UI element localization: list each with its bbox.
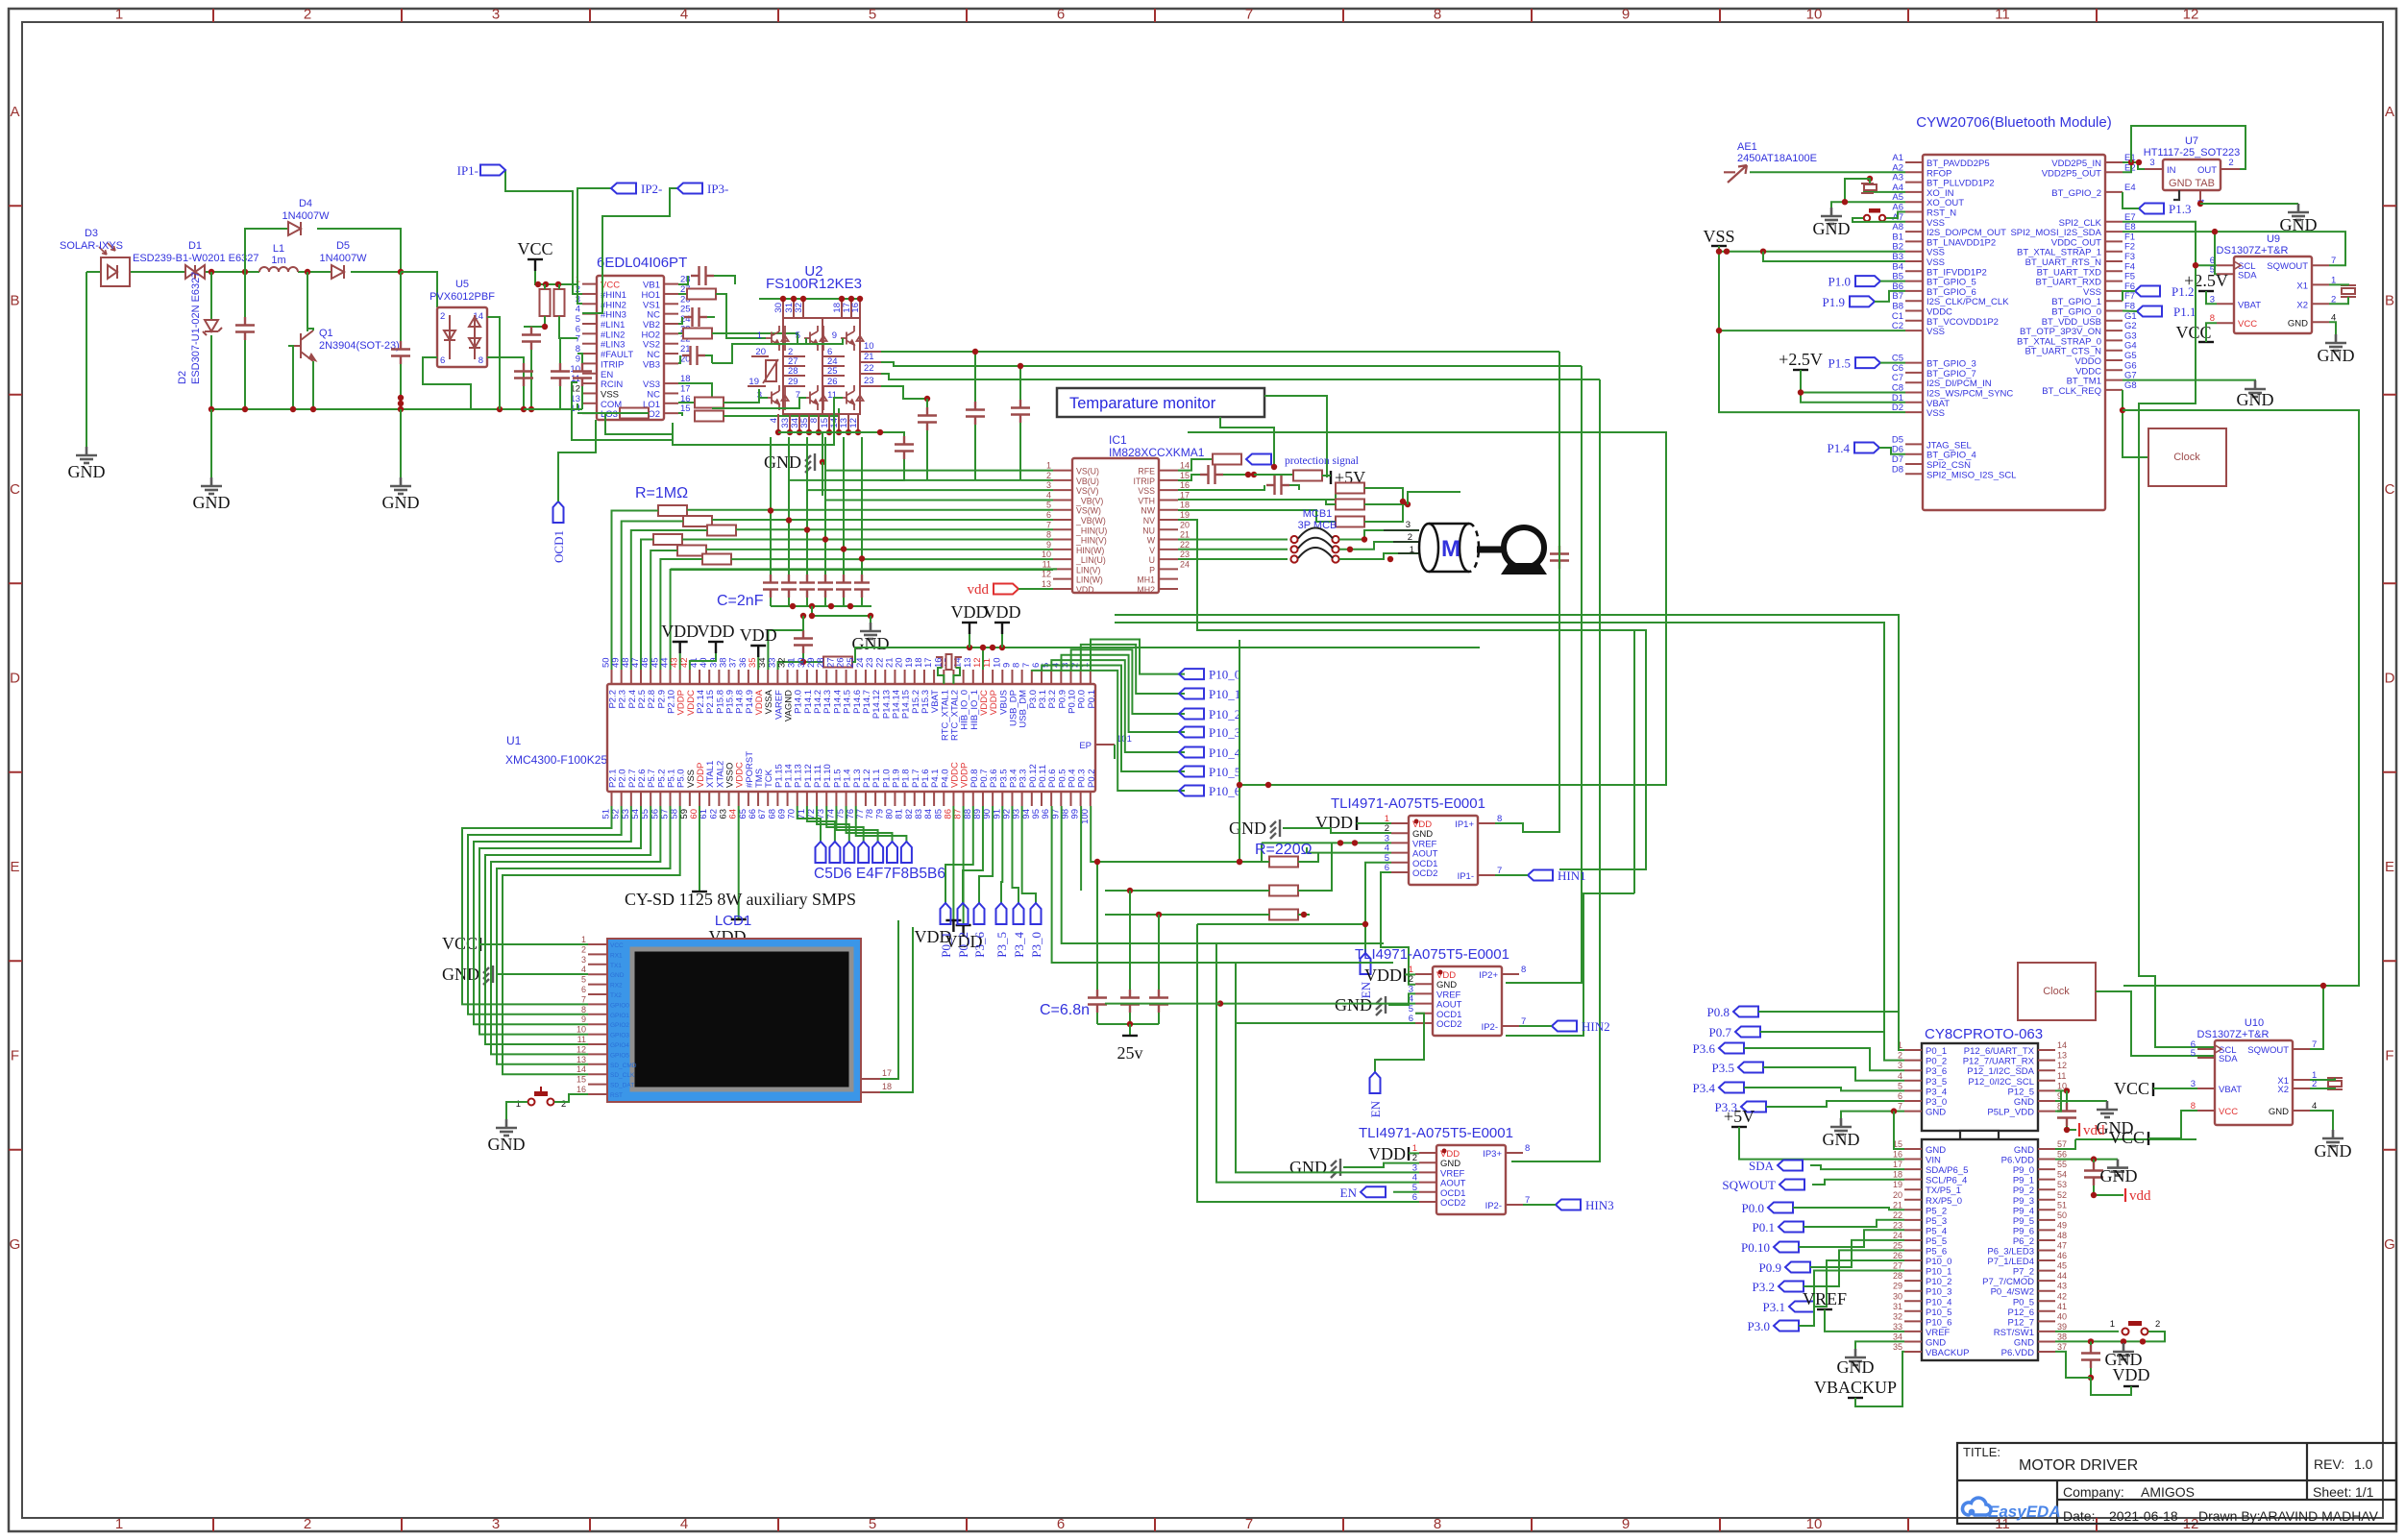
svg-text:NC: NC xyxy=(647,350,660,360)
pin 35 CY8C VBACKUP xyxy=(1904,1351,1922,1353)
svg-text:1N4007W: 1N4007W xyxy=(320,253,368,264)
resistor R=1M #4 xyxy=(653,534,682,545)
svg-text:52: 52 xyxy=(2057,1190,2067,1200)
svg-text:11: 11 xyxy=(827,390,837,401)
svg-text:P10_3: P10_3 xyxy=(1926,1287,1951,1298)
net flag P10_1 xyxy=(1179,689,1204,699)
svg-text:4: 4 xyxy=(576,305,580,315)
svg-text:TITLE:: TITLE: xyxy=(1963,1445,2000,1459)
pin 16 CY8C VIN xyxy=(1904,1159,1922,1161)
ground (LCD) xyxy=(483,966,493,985)
svg-text:P7_1/LED4: P7_1/LED4 xyxy=(1987,1257,2034,1267)
ground (P6VDD) xyxy=(2107,1160,2128,1176)
pin E7 CYW SPI2_CLK xyxy=(2105,221,2123,223)
pin 31 CY8C P10_5 xyxy=(1904,1310,1922,1312)
wire loop IP2- return xyxy=(1506,893,1634,1036)
ground (button) xyxy=(496,1119,517,1136)
svg-text:P10_4: P10_4 xyxy=(1209,746,1241,760)
svg-text:G: G xyxy=(2384,1236,2395,1253)
svg-text:NV: NV xyxy=(1143,516,1155,526)
svg-text:E: E xyxy=(2385,859,2394,875)
wire sensor3 AOUT xyxy=(1216,943,1419,1183)
svg-text:4: 4 xyxy=(1898,1071,1902,1081)
svg-text:vdd: vdd xyxy=(2129,1188,2151,1204)
capacitor ITRIP filter xyxy=(1178,475,1200,480)
wire HIN loops from IP flags xyxy=(505,170,582,294)
svg-text:NW: NW xyxy=(1141,506,1155,516)
svg-text:_HIN(V): _HIN(V) xyxy=(1075,536,1107,546)
svg-text:VTH: VTH xyxy=(1138,496,1155,505)
svg-text:19: 19 xyxy=(1180,510,1190,520)
net flag P10_0 xyxy=(1179,669,1204,679)
net flag C5D6 bank #5 xyxy=(836,806,877,842)
svg-text:GPIO4: GPIO4 xyxy=(610,1042,629,1049)
crystal (U10) xyxy=(2327,1078,2343,1089)
svg-text:VREF: VREF xyxy=(1803,1289,1847,1308)
pin 20 CY8C RX/P5_0 xyxy=(1904,1199,1922,1201)
svg-text:5: 5 xyxy=(581,975,586,985)
svg-text:IP2+: IP2+ xyxy=(1479,970,1498,981)
wire IC1 NU riser xyxy=(1239,640,1240,862)
svg-text:54: 54 xyxy=(2057,1170,2067,1180)
wire pin44 to row11 xyxy=(671,570,1053,670)
svg-text:2: 2 xyxy=(1898,1051,1902,1061)
pin 47 CY8C P6_3/LED3 xyxy=(2038,1250,2055,1252)
pin G7 CYW BT_TM1 xyxy=(2105,379,2123,381)
capacitor motor snubber xyxy=(1550,546,1569,569)
ground (U10) xyxy=(2310,1111,2333,1130)
svg-text:SQWOUT: SQWOUT xyxy=(2247,1045,2289,1056)
wire long net P0.7 from left xyxy=(1115,623,1884,1032)
svg-text:7: 7 xyxy=(1245,1516,1253,1532)
wire pin7 gnd xyxy=(1841,1112,1904,1118)
svg-text:BT_CLK_REQ: BT_CLK_REQ xyxy=(2042,386,2101,397)
pin 5 CY8C P3_4 xyxy=(1904,1089,1922,1091)
power flag +5V xyxy=(1330,471,1332,484)
pin 18 U2 top xyxy=(841,299,843,318)
svg-text:9: 9 xyxy=(576,354,580,364)
svg-text:GND: GND xyxy=(852,634,890,653)
motor M1 cylinder xyxy=(1419,524,1479,572)
svg-text:#HIN2: #HIN2 xyxy=(601,300,626,310)
wire XO_IN loop xyxy=(1864,188,1905,192)
svg-text:7: 7 xyxy=(581,994,586,1004)
svg-text:10: 10 xyxy=(570,364,580,375)
svg-text:X1: X1 xyxy=(2296,281,2308,291)
pin A7 CYW VSS xyxy=(1905,221,1923,223)
net flag IP3- xyxy=(677,183,702,194)
component Clock box (bottom) xyxy=(2018,963,2096,1020)
svg-text:#FAULT: #FAULT xyxy=(601,350,633,360)
svg-text:+5V: +5V xyxy=(1724,1107,1755,1126)
svg-text:12: 12 xyxy=(848,418,859,428)
svg-text:4: 4 xyxy=(1046,490,1051,500)
wire LCD17 up xyxy=(880,920,898,1079)
svg-text:12: 12 xyxy=(1042,570,1051,579)
svg-text:8: 8 xyxy=(1525,1143,1530,1154)
svg-text:GND: GND xyxy=(2237,390,2274,409)
net flag P3_5 xyxy=(1001,806,1002,903)
svg-text:HO1: HO1 xyxy=(641,290,660,301)
diode D4 1N4007W (top bypass) xyxy=(245,229,288,272)
svg-text:21: 21 xyxy=(1893,1200,1902,1210)
wire gate HO3 to IGBT3 xyxy=(712,338,843,363)
net flag vdd (IC1 VDD) xyxy=(994,584,1018,595)
svg-text:VS(U): VS(U) xyxy=(1076,467,1099,477)
pin 56 CY8C P6.VDD xyxy=(2038,1159,2055,1161)
svg-text:P1.1: P1.1 xyxy=(2173,305,2196,319)
wire driver bottom rail xyxy=(524,408,582,410)
net flag C5D6 bank #3 xyxy=(817,806,849,842)
svg-text:P5LP_VDD: P5LP_VDD xyxy=(1987,1108,2034,1118)
svg-text:1.0: 1.0 xyxy=(2354,1456,2373,1472)
capacitor pin37 xyxy=(2090,1341,2092,1345)
crystal RTC xyxy=(936,654,962,670)
svg-text:7: 7 xyxy=(1898,1102,1902,1112)
svg-text:2: 2 xyxy=(2228,158,2233,168)
pin C2 CYW VSS xyxy=(1905,330,1923,331)
pin 34 CY8C GND xyxy=(1904,1340,1922,1342)
svg-text:16: 16 xyxy=(850,303,861,313)
ground (CYW crystal) xyxy=(1821,208,1842,224)
pin 39 CY8C RST/SW1 xyxy=(2038,1331,2055,1332)
svg-text:NC: NC xyxy=(647,310,660,321)
resistor NW xyxy=(1178,488,1336,500)
svg-text:GPIO5: GPIO5 xyxy=(610,1052,629,1059)
wire E1/E2 to U7 xyxy=(2123,162,2145,169)
resistor HO2 xyxy=(678,332,683,334)
svg-text:40: 40 xyxy=(2057,1311,2067,1321)
svg-text:25: 25 xyxy=(827,366,838,377)
svg-text:U9: U9 xyxy=(2267,233,2280,245)
pin D5 CYW JTAG_SEL xyxy=(1905,443,1923,445)
svg-text:VDD: VDD xyxy=(2113,1365,2150,1384)
svg-text:VS2: VS2 xyxy=(643,340,660,351)
wire sensor3 VREF xyxy=(1236,963,1419,1172)
wire sensor1 VREF row xyxy=(1262,842,1391,843)
wire U2 phase W out xyxy=(881,374,1600,379)
svg-text:E4: E4 xyxy=(2124,183,2136,193)
svg-text:P10_1: P10_1 xyxy=(1209,687,1240,701)
svg-text:GND: GND xyxy=(610,972,625,979)
wire U7 tab to gnd xyxy=(2200,203,2298,205)
svg-text:Drawn By:: Drawn By: xyxy=(2198,1508,2261,1524)
pin C8 CYW I2S_WS/PCM_SYNC xyxy=(1905,392,1923,394)
svg-text:25v: 25v xyxy=(1117,1043,1143,1063)
svg-text:8: 8 xyxy=(581,1005,586,1014)
svg-text:TLI4971-A075T5-E0001: TLI4971-A075T5-E0001 xyxy=(1355,946,1509,963)
pin G8 CYW BT_CLK_REQ xyxy=(2105,389,2123,391)
svg-text:SD_DAT: SD_DAT xyxy=(610,1083,634,1089)
svg-text:VS(W): VS(W) xyxy=(1076,506,1101,516)
svg-text:8: 8 xyxy=(1434,7,1441,23)
wire sensor2 AOUT long xyxy=(1220,1003,1415,1005)
svg-text:P10_5: P10_5 xyxy=(1209,765,1240,779)
net flag SDA xyxy=(1778,1161,1803,1171)
svg-text:27: 27 xyxy=(1893,1261,1902,1271)
net flag OCD1 xyxy=(553,501,564,523)
wire U1 pin 97 to row 982 xyxy=(1062,806,1216,943)
svg-text:15: 15 xyxy=(577,1075,586,1085)
svg-text:CY-SD 1125 8W auxiliary SMPS: CY-SD 1125 8W auxiliary SMPS xyxy=(625,890,856,909)
wire U5 right to driver xyxy=(487,357,524,409)
svg-text:IP2-: IP2- xyxy=(1482,1022,1498,1033)
net flag P10_5 xyxy=(1179,767,1204,777)
pin 55 CY8C P9_0 xyxy=(2038,1168,2055,1170)
pin B5 CYW BT_GPIO_5 xyxy=(1905,281,1923,282)
resistor (gate pull, VCC row) x2 xyxy=(540,289,551,316)
svg-text:P: P xyxy=(1149,565,1155,574)
pin E8 CYW SPI2_MOSI_I2S_SDA xyxy=(2105,231,2123,232)
svg-text:OUT: OUT xyxy=(2197,165,2217,176)
pin B2 CYW VSS xyxy=(1905,251,1923,253)
svg-text:20: 20 xyxy=(1180,520,1190,529)
wire sensor3 OCD2 long loop xyxy=(1197,924,1419,1202)
wire 6.8n bottom rail xyxy=(1097,1023,1159,1025)
pin 3 LCD TX1 xyxy=(588,964,607,966)
pin 10 LCD GPIO3 xyxy=(588,1034,607,1036)
svg-text:P6_2: P6_2 xyxy=(2013,1236,2034,1247)
svg-text:2: 2 xyxy=(304,1516,311,1532)
pin 6 LCD TX2 xyxy=(588,993,607,995)
pin F3 CYW BT_UART_RTS_N xyxy=(2105,260,2123,262)
net flag P1.4 xyxy=(1854,443,1879,453)
svg-text:P3_5: P3_5 xyxy=(994,932,1009,958)
svg-text:31: 31 xyxy=(1893,1302,1902,1311)
pin F7 CYW BT_GPIO_1 xyxy=(2105,300,2123,302)
svg-text:17: 17 xyxy=(1893,1160,1902,1169)
resistor R=1M #6 xyxy=(702,554,731,565)
svg-text:GPIO0: GPIO0 xyxy=(610,1002,629,1009)
ground (bottom rail mid) xyxy=(400,409,402,477)
svg-text:7: 7 xyxy=(1245,7,1253,23)
svg-text:2: 2 xyxy=(304,7,311,23)
pin 14 LCD SD_CLK xyxy=(588,1073,607,1075)
svg-text:RCIN: RCIN xyxy=(601,379,623,390)
svg-text:SDA: SDA xyxy=(2238,270,2257,281)
svg-text:NU: NU xyxy=(1142,526,1155,535)
svg-text:1: 1 xyxy=(115,7,123,23)
svg-text:P10_6: P10_6 xyxy=(1926,1317,1951,1328)
svg-text:8: 8 xyxy=(1434,1516,1441,1532)
wire pin39 RST button xyxy=(2055,1331,2119,1332)
svg-text:P0_4/SW2: P0_4/SW2 xyxy=(1991,1287,2034,1298)
svg-text:P3_4: P3_4 xyxy=(1926,1087,1947,1097)
wire pin56 P6VDD xyxy=(2055,1159,2118,1161)
svg-text:35: 35 xyxy=(1893,1342,1902,1352)
svg-text:VSS: VSS xyxy=(1138,486,1155,496)
svg-text:OCD2: OCD2 xyxy=(1436,1019,1461,1030)
svg-text:GND: GND xyxy=(1926,1108,1946,1118)
svg-text:GND: GND xyxy=(2269,1107,2289,1117)
svg-text:P10_4: P10_4 xyxy=(1926,1297,1951,1308)
svg-text:P3.1: P3.1 xyxy=(1763,1300,1785,1314)
svg-text:D2: D2 xyxy=(177,371,188,384)
ground (U9) xyxy=(2329,322,2336,334)
svg-text:SD_CLK: SD_CLK xyxy=(610,1072,635,1079)
svg-text:U: U xyxy=(1149,555,1155,565)
svg-text:8: 8 xyxy=(1497,814,1502,824)
svg-text:4: 4 xyxy=(680,7,688,23)
svg-text:ITRIP: ITRIP xyxy=(1134,477,1156,486)
net flag IP2- xyxy=(611,183,636,194)
svg-text:GND: GND xyxy=(2014,1337,2034,1348)
svg-text:F: F xyxy=(2385,1048,2393,1064)
diode D3 SOLAR-IXYS xyxy=(101,257,130,286)
wire antenna to RFOP xyxy=(1750,171,1905,173)
net flag P1.9 xyxy=(1850,296,1875,306)
resistor LO2 xyxy=(678,413,682,416)
svg-text:1: 1 xyxy=(757,330,762,341)
svg-text:VDD2P5_OUT: VDD2P5_OUT xyxy=(2042,168,2101,179)
net flag HIN3 xyxy=(1556,1200,1581,1210)
svg-text:P0.1: P0.1 xyxy=(1087,690,1097,709)
svg-text:G: G xyxy=(10,1236,21,1253)
resistor NU xyxy=(1336,517,1364,527)
pin EP 101 xyxy=(1095,744,1115,746)
svg-text:LO3: LO3 xyxy=(601,409,618,420)
svg-text:P1.0: P1.0 xyxy=(1828,275,1851,289)
svg-text:8: 8 xyxy=(1521,965,1526,975)
svg-text:VS1: VS1 xyxy=(643,300,660,310)
svg-text:9: 9 xyxy=(1622,1516,1630,1532)
svg-text:VDD: VDD xyxy=(1076,585,1094,595)
svg-text:B: B xyxy=(10,293,19,309)
push button reset LCD xyxy=(528,1099,535,1106)
svg-text:EP: EP xyxy=(1079,741,1092,751)
svg-text:1: 1 xyxy=(2110,1319,2115,1330)
net flag EN (sensor2) xyxy=(1370,1072,1381,1093)
wire G7 to gnd xyxy=(2123,380,2255,383)
svg-text:P0.0: P0.0 xyxy=(1742,1201,1764,1215)
wire IC1 U to MCB xyxy=(1178,558,1288,560)
ground (pin38) xyxy=(2123,1341,2124,1343)
wire pin10 P12_5 xyxy=(2055,1089,2067,1091)
svg-text:5: 5 xyxy=(1046,501,1051,510)
svg-text:SDA/P6_5: SDA/P6_5 xyxy=(1926,1165,1968,1176)
net flag P10_2 xyxy=(1179,709,1204,720)
svg-text:4: 4 xyxy=(680,1516,688,1532)
wire row 11 to IC1 pin 11 xyxy=(671,568,1057,570)
pin 12 LCD GPIO5 xyxy=(588,1053,607,1055)
svg-text:13: 13 xyxy=(1042,579,1051,589)
pin 19 CY8C TX/P5_1 xyxy=(1904,1188,1922,1190)
svg-text:P1.3: P1.3 xyxy=(2169,202,2191,216)
pin 16 LCD RST xyxy=(588,1093,607,1095)
wire P10_6 xyxy=(1032,670,1185,791)
resistor R220 #3 xyxy=(1269,910,1298,920)
svg-text:P3.6: P3.6 xyxy=(1693,1041,1716,1056)
svg-text:W: W xyxy=(1147,536,1156,546)
svg-text:VDD: VDD xyxy=(740,625,777,645)
svg-text:GND: GND xyxy=(1229,819,1266,838)
svg-text:P6.VDD: P6.VDD xyxy=(2001,1156,2034,1166)
svg-text:57: 57 xyxy=(2057,1139,2067,1149)
wire sensor2 OCD1 to EN2 xyxy=(1375,1014,1424,1072)
svg-text:P9_6: P9_6 xyxy=(2013,1226,2034,1236)
svg-text:IP3-: IP3- xyxy=(707,182,728,196)
wire IC1 V to MCB xyxy=(1178,549,1288,550)
capacitor 2nF #5 xyxy=(843,437,845,577)
pin 9 CY8C GND xyxy=(2038,1100,2055,1102)
svg-text:SPI2_MISO_I2S_SCL: SPI2_MISO_I2S_SCL xyxy=(1926,470,2016,480)
pin 49 CY8C P9_6 xyxy=(2038,1229,2055,1231)
svg-text:P12_6: P12_6 xyxy=(2008,1308,2034,1318)
svg-text:7: 7 xyxy=(1046,520,1051,529)
ground (C bank) xyxy=(868,613,873,619)
svg-text:GND: GND xyxy=(2288,318,2308,329)
svg-text:MH1: MH1 xyxy=(1137,575,1155,585)
svg-text:SQWOUT: SQWOUT xyxy=(2267,261,2308,272)
wire U2 bus down to gnd rail xyxy=(822,432,823,462)
wire main input to U5 xyxy=(401,271,437,273)
svg-text:TLI4971-A075T5-E0001: TLI4971-A075T5-E0001 xyxy=(1359,1125,1513,1141)
svg-text:G8: G8 xyxy=(2124,380,2137,391)
pin G3 CYW BT_XTAL_STRAP_0 xyxy=(2105,339,2123,341)
pin 1 LCD VCC xyxy=(588,943,607,945)
svg-text:C: C xyxy=(10,481,20,498)
svg-text:12: 12 xyxy=(2183,7,2199,23)
svg-text:P3.0: P3.0 xyxy=(1748,1319,1770,1333)
wire EP net down xyxy=(1114,745,1116,759)
pin 13 CY8C P12_7/UART_RX xyxy=(2038,1060,2055,1062)
svg-text:53: 53 xyxy=(2057,1180,2067,1189)
wire sensor2 OCD2 trunk xyxy=(1236,1022,1415,1024)
svg-text:P0.9: P0.9 xyxy=(1759,1260,1781,1275)
svg-text:25: 25 xyxy=(1893,1241,1902,1251)
wire pin37 P6.VDD xyxy=(2055,1352,2091,1378)
resistor R=1M #3 xyxy=(707,526,736,536)
svg-text:18: 18 xyxy=(1893,1170,1902,1180)
svg-text:IP1-: IP1- xyxy=(457,163,479,178)
crystal (U9) xyxy=(2341,285,2356,297)
pin 7 CY8C GND xyxy=(1904,1111,1922,1112)
motor shaft xyxy=(1477,547,1507,553)
svg-text:37: 37 xyxy=(2057,1342,2067,1352)
svg-text:15: 15 xyxy=(1180,471,1190,480)
svg-text:45: 45 xyxy=(2057,1261,2067,1271)
svg-text:P5_4: P5_4 xyxy=(1926,1226,1947,1236)
pin 21 CY8C P5_2 xyxy=(1904,1209,1922,1210)
wire bundle U1 to LCD xyxy=(462,806,612,1004)
svg-text:P5_2: P5_2 xyxy=(1926,1206,1947,1216)
wire IC1 W to MCB xyxy=(1178,539,1288,541)
svg-text:D: D xyxy=(10,671,20,687)
pin 54 CY8C P9_1 xyxy=(2038,1179,2055,1181)
svg-text:1/1: 1/1 xyxy=(2355,1484,2374,1500)
svg-text:2450AT18A100E: 2450AT18A100E xyxy=(1737,153,1817,164)
svg-text:6: 6 xyxy=(440,355,445,366)
pin 42 CY8C P0_5 xyxy=(2038,1300,2055,1302)
svg-text:GND: GND xyxy=(1926,1145,1946,1156)
net flag P1.1 xyxy=(2137,306,2162,317)
svg-text:10: 10 xyxy=(1806,1516,1823,1532)
svg-text:3: 3 xyxy=(581,955,586,965)
svg-text:X2: X2 xyxy=(2277,1085,2289,1095)
svg-text:GND: GND xyxy=(1289,1158,1327,1177)
svg-text:P12_7: P12_7 xyxy=(2008,1317,2034,1328)
svg-text:GPIO1: GPIO1 xyxy=(610,1013,629,1019)
svg-text:P3_5: P3_5 xyxy=(1926,1077,1947,1088)
pin D2 CYW VSS xyxy=(1905,411,1923,413)
pin B3 CYW VSS xyxy=(1905,260,1923,262)
pin F2 CYW BT_XTAL_STRAP_1 xyxy=(2105,251,2123,253)
svg-text:P10_6: P10_6 xyxy=(1209,784,1241,798)
svg-text:30: 30 xyxy=(773,303,784,313)
svg-text:28: 28 xyxy=(788,366,798,377)
net flag vdd (pin56) xyxy=(2124,1188,2126,1202)
wire U2 phase U out xyxy=(881,351,1559,353)
